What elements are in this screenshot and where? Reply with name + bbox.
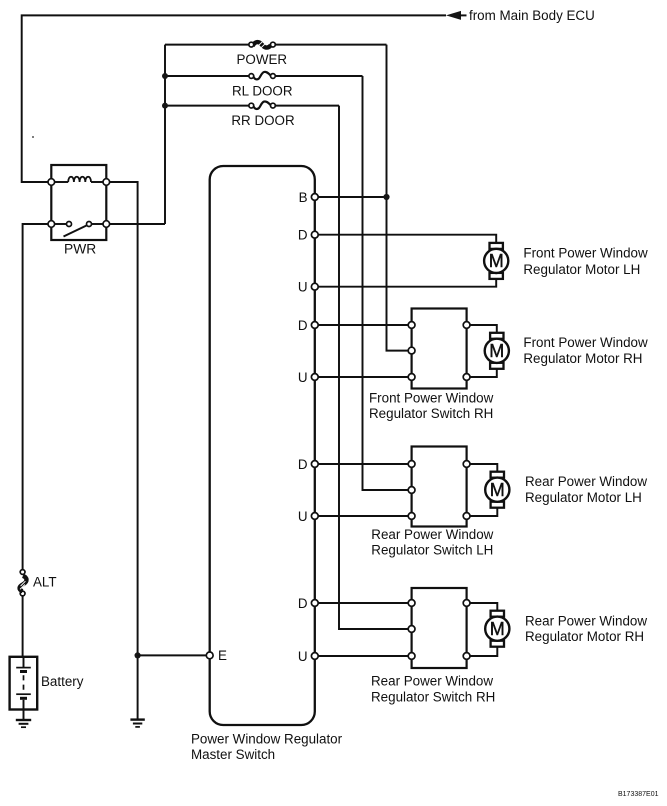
label Rear Power Window Regulator Switch RH [371,674,495,705]
relay PWR [48,165,110,240]
front power window regulator switch RH [408,309,470,389]
label B173387E01 [618,791,659,798]
wire RR DOOR bus to Rear RH switch B terminal [339,106,409,629]
label Battery [41,674,84,689]
svg-text:B: B [299,190,308,205]
wire Front RH switch to motor bottom [470,369,497,377]
wire relay switch left to battery [23,224,48,570]
svg-text:U: U [298,509,308,524]
svg-text:Front Power Window: Front Power Window [523,246,648,261]
svg-text:U: U [298,370,308,385]
svg-text:E: E [218,648,227,663]
svg-text:Front Power Window: Front Power Window [369,390,494,405]
svg-text:Regulator Switch LH: Regulator Switch LH [371,543,493,558]
wire Rear RH switch to motor top [470,603,497,611]
svg-text:Power Window Regulator: Power Window Regulator [191,732,343,747]
svg-text:M: M [489,251,504,271]
rear power window regulator switch LH [408,447,470,527]
junction fuse bus / RR DOOR row [162,103,168,109]
svg-text:B173387E01: B173387E01 [618,791,659,798]
scan speck [32,136,34,138]
battery [10,657,38,710]
wire terminal U to Rear RH switch [318,655,409,657]
svg-text:ALT: ALT [33,575,57,590]
wire RR DOOR fuse row [165,105,339,107]
svg-text:RL DOOR: RL DOOR [232,83,293,98]
svg-text:Regulator Switch RH: Regulator Switch RH [371,689,495,704]
label PWR [64,241,96,256]
wire terminal D to Front RH switch [318,324,409,326]
fusible link ALT [20,570,27,596]
label RL DOOR [232,83,293,98]
fusible link POWER [249,42,275,49]
label from Main Body ECU [469,8,595,23]
wire relay switch right to fuse bus [110,223,165,225]
svg-text:D: D [298,228,308,243]
wire terminal D to Rear LH switch [318,463,409,465]
label Rear Power Window Regulator Motor RH [525,614,647,645]
label Rear Power Window Regulator Switch LH [371,527,493,558]
junction E row [135,652,141,658]
ground below E drop [130,720,144,727]
svg-text:RR DOOR: RR DOOR [231,113,295,128]
wire E row [138,654,207,656]
svg-text:PWR: PWR [64,241,96,256]
wire terminal D to Front LH motor [318,235,496,243]
svg-text:Rear Power Window: Rear Power Window [525,614,647,629]
fuse RR DOOR [249,101,275,109]
terminal U (front LH) [298,280,318,295]
svg-text:Front Power Window: Front Power Window [523,335,648,350]
svg-text:Regulator Switch RH: Regulator Switch RH [369,406,493,421]
svg-text:D: D [298,596,308,611]
label POWER [237,52,288,67]
terminal B [299,190,319,205]
wire Rear LH switch to motor top [470,464,497,472]
wire terminal D to Rear RH switch [318,602,409,604]
fuse RL DOOR [249,72,275,80]
wire terminal U to Front RH switch [318,376,409,378]
wire relay coil right to E row ground drop [110,182,138,655]
svg-text:D: D [298,457,308,472]
svg-text:Rear Power Window: Rear Power Window [525,474,647,489]
terminal U (rear RH) [298,649,318,664]
label Power Window Regulator Master Switch [191,732,343,762]
svg-text:Regulator Motor LH: Regulator Motor LH [525,490,642,505]
wire terminal U to Rear LH switch [318,515,409,517]
ground below battery [16,710,31,728]
svg-text:Master Switch: Master Switch [191,747,275,762]
arrow from Main Body ECU [446,11,467,20]
label RR DOOR [231,113,295,128]
svg-text:M: M [490,619,505,639]
wire from Main Body ECU to relay coil [22,15,446,182]
wire Rear RH switch to motor bottom [470,647,497,656]
wire POWER fuse row [165,44,387,46]
label Rear Power Window Regulator Motor LH [525,474,647,505]
label ALT [33,575,57,590]
label Front Power Window Regulator Motor RH [523,335,648,366]
svg-text:Rear Power Window: Rear Power Window [371,674,493,689]
svg-text:D: D [298,318,308,333]
terminal D (rear LH) [298,457,318,472]
motor M front LH [484,243,508,279]
fuse bus vertical (left) [164,45,166,224]
rear power window regulator switch RH [408,588,470,668]
motor M rear LH [485,472,509,508]
terminal E [206,648,227,663]
svg-text:Regulator Motor LH: Regulator Motor LH [523,262,640,277]
wire POWER bus to Front RH switch B terminal [387,45,410,351]
power window regulator master switch U1 [210,166,315,725]
wire Front RH switch to motor top [470,325,497,333]
svg-text:Battery: Battery [41,674,84,689]
label Front Power Window Regulator Switch RH [369,390,494,421]
svg-text:U: U [298,649,308,664]
wire Rear LH switch to motor bottom [470,508,497,516]
wire E row drop to ground [137,655,139,719]
terminal D (rear RH) [298,596,318,611]
label Front Power Window Regulator Motor LH [523,246,648,277]
svg-text:U: U [298,280,308,295]
terminal U (rear LH) [298,509,318,524]
junction fuse bus / RL DOOR row [162,73,168,79]
wire RL DOOR bus to Rear LH switch B terminal [363,76,410,490]
svg-text:Regulator Motor RH: Regulator Motor RH [525,629,644,644]
svg-text:Regulator Motor RH: Regulator Motor RH [523,351,642,366]
svg-text:from Main Body ECU: from Main Body ECU [469,8,595,23]
motor M front RH [485,333,509,369]
terminal U (front RH) [298,370,318,385]
wire ALT to battery [22,596,24,657]
motor M rear RH [485,611,509,647]
terminal D (front RH) [298,318,318,333]
wire terminal B to POWER bus [318,196,387,198]
svg-text:M: M [489,341,504,361]
wire RL DOOR fuse row [165,75,363,77]
terminal D (front LH) [298,228,318,243]
svg-text:M: M [490,480,505,500]
svg-text:Rear Power Window: Rear Power Window [371,527,493,542]
svg-text:POWER: POWER [237,52,288,67]
wire terminal U to Front LH motor [318,279,496,287]
junction B row / POWER bus [383,194,389,200]
